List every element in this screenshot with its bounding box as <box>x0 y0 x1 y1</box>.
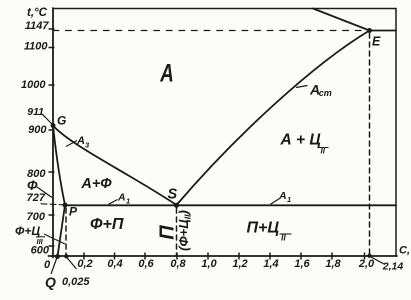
svg-text:G: G <box>57 114 66 128</box>
dashed dropline from S at 0.8 <box>176 208 178 256</box>
svg-text:А: А <box>76 135 85 147</box>
svg-text:А: А <box>159 59 173 87</box>
dashed 1147 line to E <box>53 30 370 32</box>
svg-text:0,8: 0,8 <box>170 258 186 270</box>
svg-text:А+Ф: А+Ф <box>80 176 112 192</box>
svg-text:1: 1 <box>126 197 130 206</box>
svg-text:700: 700 <box>27 211 46 223</box>
leader 0,025 label <box>66 257 76 269</box>
region label A (austenite) <box>159 59 173 87</box>
svg-text:600: 600 <box>31 245 50 257</box>
svg-text:S: S <box>168 187 178 203</box>
svg-text:911: 911 <box>27 106 44 118</box>
svg-text:А: А <box>117 192 126 204</box>
svg-text:1,8: 1,8 <box>325 258 341 270</box>
svg-text:Q: Q <box>45 274 56 290</box>
point S <box>174 203 179 208</box>
X axis ticks <box>84 253 365 260</box>
svg-text:2,0: 2,0 <box>358 258 375 270</box>
svg-text:ст: ст <box>319 88 332 98</box>
svg-text:1000: 1000 <box>21 79 46 91</box>
temperature axis (Y) <box>52 8 54 258</box>
svg-text:А: А <box>278 190 287 202</box>
svg-text:t,°С: t,°С <box>27 7 48 19</box>
svg-text:1,6: 1,6 <box>294 258 310 270</box>
leader Q label <box>51 256 58 274</box>
svg-text:E: E <box>372 35 381 49</box>
svg-text:С,: С, <box>399 245 410 257</box>
leader A1 label left <box>109 200 118 205</box>
solidus line AE into E <box>313 9 370 31</box>
Y axis ticks <box>49 29 55 246</box>
svg-text:II: II <box>321 147 326 156</box>
svg-text:727: 727 <box>27 192 46 204</box>
svg-text:1: 1 <box>287 195 291 204</box>
A1 line (727, PSK) <box>65 204 396 206</box>
svg-text:Ф: Ф <box>27 178 38 193</box>
GS curve (A3) <box>53 126 177 206</box>
leader A3 label <box>66 141 77 147</box>
rotated label (F+C_II) <box>176 210 193 251</box>
svg-text:P: P <box>69 205 78 219</box>
point E <box>367 28 372 33</box>
svg-text:900: 900 <box>28 124 47 136</box>
top border <box>53 8 396 10</box>
svg-text:П+Ц: П+Ц <box>247 220 280 237</box>
svg-text:1,2: 1,2 <box>232 258 247 270</box>
svg-text:0,2: 0,2 <box>77 258 92 270</box>
leader F+C_III region <box>44 234 65 244</box>
leader F region <box>37 187 52 198</box>
dot at 0.025 on axis <box>64 254 68 258</box>
svg-text:1,4: 1,4 <box>263 258 278 270</box>
point P <box>63 203 68 208</box>
svg-text:0,4: 0,4 <box>107 258 122 270</box>
dashed dropline from P at 0.025 <box>65 208 67 256</box>
point G <box>51 123 56 128</box>
SE curve (Acm) <box>177 31 370 206</box>
svg-text:0,025: 0,025 <box>62 276 90 288</box>
svg-text:II: II <box>281 233 286 243</box>
svg-text:1,0: 1,0 <box>201 258 217 270</box>
svg-text:0,6: 0,6 <box>138 258 154 270</box>
leader lines <box>37 86 385 275</box>
PQ line <box>58 205 66 257</box>
point Q <box>55 254 60 259</box>
svg-text:2,14: 2,14 <box>382 261 404 273</box>
leader 2,14 label <box>371 257 385 265</box>
leader 911 to G <box>42 114 52 124</box>
dot at 2.14 on axis <box>367 254 371 258</box>
svg-text:0: 0 <box>44 259 51 271</box>
dash-dot 727 leader to P <box>41 204 63 205</box>
svg-text:1100: 1100 <box>24 41 49 53</box>
leader Acm label <box>296 86 308 88</box>
svg-text:А + Ц: А + Ц <box>280 132 322 149</box>
right border <box>395 9 397 257</box>
leader A1 label right <box>271 199 280 205</box>
svg-text:Ф+П: Ф+П <box>90 216 124 233</box>
svg-text:1147: 1147 <box>25 20 50 32</box>
carbon axis (X) <box>49 255 398 257</box>
GP line <box>53 126 65 206</box>
dashed dropline from E at 2.14 <box>369 33 371 255</box>
ECF line right of E (1147) <box>370 30 397 32</box>
point dots <box>51 28 373 259</box>
